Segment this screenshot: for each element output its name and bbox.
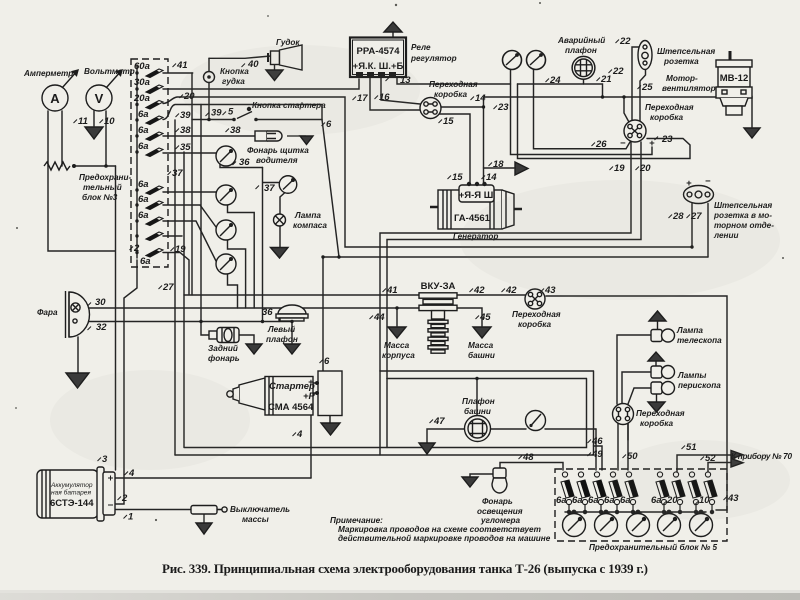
wire 21 drop to box2 [624,97,630,124]
fuse F1-4 [135,116,163,125]
wire 39-5 horn tee [192,119,233,121]
svg-text:42: 42 [473,285,485,296]
svg-text:18: 18 [493,159,504,170]
svg-text:+Р: +Р [303,391,316,402]
wire 48 sight lamp feed [500,463,563,471]
motor fan MV-12 [716,51,752,115]
svg-text:20: 20 [639,163,651,174]
horn button [204,72,215,83]
wire plafond stem [583,79,585,84]
svg-text:19: 19 [614,163,625,174]
socket S5-5 [690,512,713,537]
relay regulator PPA-4574 box [350,38,406,78]
wire 35 fuse to socket 1 [163,152,216,154]
svg-text:6а: 6а [138,141,149,152]
svg-text:6а: 6а [556,495,567,506]
svg-text:6а: 6а [138,210,149,221]
wire 42 VKU to box3 [457,294,525,296]
wire fuse to socket 4 [163,221,216,261]
svg-text:V: V [95,91,104,106]
wire 13 PPA to fuse 30a [163,79,359,89]
svg-text:6: 6 [324,356,330,367]
fuse F5-4 [609,472,622,505]
svg-text:46: 46 [591,436,603,447]
svg-text:6а: 6а [588,495,599,506]
svg-text:41: 41 [176,60,188,71]
wire driver lamp ground lead [287,135,306,137]
fuse block 1 dashed box [131,59,168,267]
sight lamp [492,468,507,493]
svg-text:Лампа: Лампа [294,211,321,220]
transfer box 4 [613,404,634,425]
wire sight lamp ground lead [470,474,494,477]
transfer box 2 [624,120,646,142]
compass lamp [274,214,286,226]
wire PPA terminal 13 [397,77,511,84]
wire 19 fuse drop [163,253,189,295]
svg-text:плафон: плафон [565,46,597,55]
wire socket3 drop [228,239,246,308]
engine compartment socket [684,186,714,204]
svg-text:Мотор-: Мотор- [666,74,698,83]
voltmeter V [86,70,122,111]
horn [268,45,302,70]
svg-text:2: 2 [121,493,128,504]
fuse F1-8 [135,201,163,210]
starter button switch [232,107,258,121]
wire 24 riser pair [518,84,691,159]
arrow telescope up [649,311,666,321]
svg-text:+: + [649,138,655,149]
wire telescope arrow stem [657,321,659,330]
periscope lamp bulb 1 [651,366,675,379]
svg-text:23: 23 [661,134,673,145]
svg-text:1: 1 [128,512,133,523]
svg-text:Переходная: Переходная [636,409,685,418]
wire turret dome riser [476,379,478,417]
svg-text:фонарь: фонарь [208,354,240,363]
wire voltmeter lead 10 [74,111,116,166]
svg-text:22: 22 [619,36,631,47]
fuse F5-5 [625,472,638,505]
wire starter output 4 [310,415,312,478]
VKU-3A slip ring [419,293,457,353]
wire riser to rear lamp [201,105,209,336]
fuse F5-2 [577,472,590,505]
svg-text:Выключатель: Выключатель [230,505,290,514]
ground starter [321,423,340,435]
fuse F1-11 [135,249,163,258]
wire left dome ground lead [291,321,293,343]
wire inner shelf drops [380,371,387,455]
svg-text:21: 21 [600,74,612,85]
svg-text:Фонарь: Фонарь [482,497,513,506]
wire motor fan ground lead [748,97,752,128]
wire starter relay ground lead [329,415,331,423]
svg-text:розетка: розетка [663,57,699,66]
svg-text:6а: 6а [138,125,149,136]
svg-text:Левый: Левый [267,325,295,334]
svg-text:Амперметр: Амперметр [23,69,73,78]
socket S5-1 [563,512,586,537]
socket S5-4 [658,512,681,537]
wire 27 engine socket drop [707,204,709,258]
svg-text:башни: башни [464,406,491,416]
fuse F5-1 [561,472,574,505]
svg-text:20а: 20а [133,93,150,104]
plug socket top [638,41,652,70]
svg-text:10: 10 [104,116,115,127]
wire 20 from box2 to shelf [387,142,641,379]
svg-text:Маркировка проводов на схеме с: Маркировка проводов на схеме соответству… [338,525,541,534]
svg-text:−: − [620,138,626,149]
svg-text:14: 14 [475,93,486,104]
transfer box 1 [420,98,441,119]
ground compass lamp [271,248,289,259]
wire 39 fuse riser [163,105,322,121]
socket S5-3 [627,512,650,537]
lamp socket 2 [216,185,236,205]
wire 49 riser [595,429,597,470]
fuse elements block 5 [561,472,717,537]
svg-text:24: 24 [549,75,561,86]
svg-text:Лампы: Лампы [677,371,706,380]
fuse F5-9 [704,472,717,505]
arrows to device 70 [731,451,743,468]
wire fuse to socket 3 [163,205,216,227]
wire 25 plug socket to box2 [640,63,646,125]
wire 20 fuse long run to engine socket [163,97,692,247]
lamp socket 4 [216,254,236,274]
svg-text:Аварийный: Аварийный [557,36,605,45]
wire fuse5 bottom bus [565,511,706,513]
svg-text:+: + [308,377,314,388]
svg-text:массы: массы [242,515,269,524]
ground mass switch [196,523,212,534]
svg-text:Переходная: Переходная [512,310,561,319]
svg-text:Реле: Реле [411,43,431,52]
ground mass turret [473,327,491,338]
wire mass switch ground stem [203,514,205,523]
svg-text:плафон: плафон [266,335,298,344]
svg-text:47: 47 [433,416,445,427]
driver panel lamp [255,131,282,141]
svg-text:Штепсельная: Штепсельная [657,47,715,56]
svg-text:ВКУ-ЗА: ВКУ-ЗА [421,281,456,292]
svg-text:22: 22 [612,66,624,77]
svg-text:Переходная: Переходная [645,103,694,112]
svg-text:19: 19 [175,244,186,255]
wire periscope lamp 1 [622,372,651,404]
ground rear lamp [246,344,262,354]
wire PPA ground lead [392,32,394,37]
wire horn button riser and drop [208,58,210,119]
paper mottling [50,45,790,520]
starter SMA-4564 [227,371,342,416]
headlight [66,291,90,338]
wire junction to battery bus [48,166,116,470]
fuse F1-1 [135,69,163,78]
svg-text:15: 15 [452,172,463,183]
wire periscope lamp 2 [628,388,651,404]
wire battery 4 [115,477,311,479]
wire 52 [708,463,731,473]
svg-text:37: 37 [172,168,183,179]
fuse F1-9 [135,217,163,226]
svg-text:тельный: тельный [83,183,122,192]
svg-text:башни: башни [468,350,495,360]
wire 51 [677,455,731,472]
wire socket4 drop [228,275,238,308]
svg-text:36: 36 [239,157,250,168]
wire headlight 30 [80,307,419,309]
wire ammeter left lead [47,111,49,166]
wire 36 socket1 hook [220,158,263,168]
svg-text:ная батарея: ная батарея [51,489,91,497]
svg-text:компаса: компаса [293,221,327,230]
arrow periscope down [648,402,665,412]
svg-text:Фара: Фара [37,308,58,317]
wire socket2 drop [228,203,255,308]
wire headlight ground lead [77,337,79,373]
fuse F1-10 [135,232,163,241]
wire headlight 32 [77,321,292,323]
svg-text:6а: 6а [604,495,615,506]
fuse F1-5 [135,132,163,141]
wire fuse to socket 2 [163,191,216,193]
svg-text:32: 32 [96,322,107,333]
svg-text:вентилятор: вентилятор [662,84,716,93]
fuse F5-8 [688,472,701,505]
ground horn [266,70,283,81]
svg-text:48: 48 [522,452,534,463]
wire rear lamp ground lead [239,335,254,343]
svg-text:45: 45 [479,312,491,323]
wire 46 stub [594,446,603,470]
wire periscope arrow stem [655,361,657,366]
ground left dome [284,344,300,354]
svg-text:44: 44 [373,312,385,323]
fuse F5-7 [672,472,685,505]
wire gauge to loop [545,428,596,430]
svg-text:6а: 6а [140,256,151,267]
svg-text:38: 38 [180,125,191,136]
wire 38 fuse to driver panel lamp [163,135,255,137]
emergency socket a [503,51,522,70]
arrow 18 [515,162,528,175]
svg-text:телескопа: телескопа [677,336,722,345]
ground driver lamp [300,136,313,145]
turret dome lamp [465,416,491,442]
ground headlight [66,373,89,388]
fuse F1-3 [135,101,163,110]
svg-text:Переходная: Переходная [429,80,478,89]
svg-text:41: 41 [386,285,398,296]
svg-text:23: 23 [497,102,509,113]
wire 14 box1 to generator [441,106,484,108]
svg-text:перископа: перископа [678,381,721,390]
wire riser 41 vertical [191,73,193,295]
svg-text:49: 49 [591,449,603,460]
wire loop outer [175,371,594,455]
svg-text:Вольтметр: Вольтметр [84,67,135,76]
wire battery 2 riser [116,260,137,504]
fuse block 5 dashed box [555,469,727,541]
wire 50 [627,424,629,440]
generator GA-4561 [430,182,522,229]
arrow periscope up [648,352,664,361]
svg-text:60а: 60а [134,61,150,72]
fuse F5-3 [593,472,606,505]
wire 6 diagonal [257,120,339,258]
svg-text:37: 37 [264,183,275,194]
svg-text:42: 42 [505,285,517,296]
svg-text:коробка: коробка [650,112,683,122]
svg-text:36: 36 [262,307,273,318]
svg-text:Масса: Масса [384,341,410,350]
socket S5-2 [595,512,618,537]
inclinometer gauge [526,411,546,431]
ground sight lamp [462,477,478,487]
svg-text:6а: 6а [572,495,583,506]
fuse F5-6 [656,472,669,505]
rear lamp [209,328,239,343]
svg-text:4: 4 [128,468,135,479]
svg-text:Плафон: Плафон [462,397,495,406]
svg-text:Предохранительный блок № 5: Предохранительный блок № 5 [589,542,717,552]
wire PPA terminal 17 [370,77,420,110]
svg-text:блок №3: блок №3 [82,192,118,202]
wire fuse bus block1 [136,65,138,258]
svg-text:Аккумулятор: Аккумулятор [50,482,93,489]
ammeter A [42,70,78,111]
wire fuse stub [163,235,182,237]
left dome lamp [276,305,308,321]
svg-text:6а: 6а [138,194,149,205]
wire 22 from plug socket top [632,47,641,125]
fuse F1-7 [135,186,163,195]
wire horn ground stem [274,65,276,71]
compass switch [279,176,297,194]
svg-text:39: 39 [180,110,191,121]
wire 40 horn feed [163,56,271,73]
node junctions [104,95,694,380]
wire 37 riser to compass switch [263,168,281,322]
wire number ticks [74,40,728,519]
svg-text:Задний: Задний [208,344,238,353]
wire 45 mass turret [457,308,482,326]
wire 19 from box2 to shelf [380,142,631,371]
ground mass hull [388,327,406,338]
wire 41 to VKU [184,294,419,296]
svg-text:Лампа: Лампа [676,326,703,335]
wire left dome stem [278,318,280,322]
resistor shunt [44,162,70,170]
wire inner shelf pair [380,371,593,379]
node fuse5 bus dots [568,510,714,513]
wire riser loop outer left [174,120,176,455]
wire starter relay drop [322,257,324,371]
svg-text:угломера: угломера [480,516,521,525]
svg-text:25: 25 [641,82,653,93]
svg-text:Рис. 339. Принципиальная схема: Рис. 339. Принципиальная схема электрооб… [162,561,648,576]
fuse elements block 1 [135,69,163,257]
svg-text:35: 35 [180,142,191,153]
svg-text:СМА 4564: СМА 4564 [268,402,314,413]
svg-text:6а: 6а [138,109,149,120]
fuse F1-6 [135,148,163,157]
wire 18 arrow feed [484,167,515,169]
svg-text:коробка: коробка [640,418,673,428]
periscope lamp bulb 2 [651,382,675,395]
mass switch [191,506,227,515]
wire voltmeter lead 11 [93,111,95,126]
svg-text:6а: 6а [138,179,149,190]
svg-text:действительной маркировке пров: действительной маркировке проводов на ма… [338,534,551,543]
ground PPA arrow up [384,22,402,32]
wire battery 1 to mass switch [116,509,191,511]
emergency socket b [527,51,546,70]
svg-text:Примечание:: Примечание: [330,516,383,525]
wire 43 to fuse block 5 [546,296,727,510]
svg-text:регулятор: регулятор [410,54,457,63]
wire periscope down stem [656,394,658,402]
wire 44 mass hull [396,308,398,326]
svg-text:−: − [705,176,711,187]
svg-text:коробка: коробка [518,319,551,329]
svg-text:27: 27 [162,282,174,293]
wire turret dome to gauge [490,428,526,430]
wire turret dome ground lead [427,429,465,443]
svg-text:15: 15 [443,116,454,127]
wire compass switch to lamp [280,193,285,248]
wire 14 generator to motor fan [484,97,719,184]
wire 27 long run to engine socket [323,256,708,258]
telescope lamp bulb [651,329,675,342]
svg-text:A: A [50,91,60,106]
lamp socket 3 [216,220,236,240]
ground turret dome [419,443,435,454]
wire 15 box1 to generator [438,114,470,184]
fuse F1-2 [135,85,163,94]
svg-text:Фонарь щитка: Фонарь щитка [247,146,309,155]
wire 23 from emergency socket a [511,70,653,155]
svg-text:МВ-12: МВ-12 [720,73,749,84]
svg-text:Масса: Масса [468,341,494,350]
wire 24 to emergency lamp [518,84,603,97]
lamp socket 1 [216,146,236,166]
transfer box 3 [525,289,545,309]
emergency dome lamp [572,56,595,79]
svg-text:2: 2 [133,243,140,254]
wire 28 engine socket drop [691,204,693,248]
svg-text:корпуса: корпуса [382,351,415,360]
wire 46 box4 to fuses [618,424,628,470]
svg-text:+Я-Я Ш: +Я-Я Ш [459,190,494,201]
ground motor fan [744,128,760,138]
wire riser loop inner left [183,152,185,447]
svg-text:коробка: коробка [434,89,467,99]
svg-text:30а: 30а [134,77,150,88]
svg-text:30: 30 [95,297,106,308]
wire 26 from emergency socket b [534,70,631,149]
wire ammeter right lead [61,111,63,166]
svg-text:Предохрани-: Предохрани- [79,173,131,182]
ground voltmeter [85,127,103,139]
svg-text:4: 4 [296,429,303,440]
wire telescope lamp [617,335,651,404]
node junction [72,164,76,168]
